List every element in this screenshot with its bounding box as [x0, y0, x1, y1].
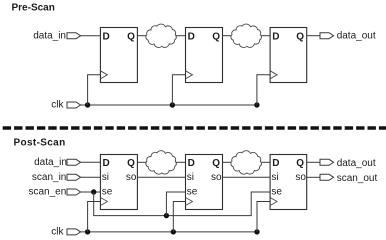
svg-text:Q: Q	[296, 31, 304, 42]
svg-text:se: se	[271, 187, 282, 198]
wire clk riser U6	[257, 202, 270, 232]
svg-text:Post-Scan: Post-Scan	[14, 138, 66, 149]
junction scan_en	[91, 189, 96, 194]
svg-text:so: so	[211, 172, 222, 183]
junction clk-U5	[171, 229, 176, 234]
combinational cloud 1	[146, 24, 177, 47]
junction clk-U2	[170, 102, 175, 107]
clock triangle U1	[100, 71, 107, 79]
input pin scan_en	[67, 189, 81, 195]
combinational cloud 2	[231, 24, 262, 47]
wire data_in to U4.D	[81, 161, 101, 163]
wire U6.so to output pin	[307, 176, 320, 178]
output pin scan_out	[320, 174, 334, 180]
svg-text:so: so	[295, 172, 306, 183]
wire U5.so to U6.si	[223, 176, 271, 178]
junction clk-U3	[254, 102, 259, 107]
input pin clk (post)	[67, 229, 81, 235]
svg-text:so: so	[126, 172, 137, 183]
input pin clk (pre)	[67, 102, 81, 108]
junction scan_en-U5	[164, 213, 169, 218]
svg-text:data_out: data_out	[337, 158, 376, 169]
wire data_in to U1.D	[81, 35, 101, 37]
output pin data_out	[320, 33, 334, 39]
flip-flop U6	[270, 155, 307, 210]
svg-text:D: D	[103, 158, 110, 169]
dashed separator line	[3, 126, 386, 129]
wire clk trunk (pre)	[81, 104, 257, 106]
svg-text:Q: Q	[127, 31, 135, 42]
svg-text:data_in: data_in	[33, 30, 66, 41]
combinational cloud 3	[146, 151, 177, 174]
clock triangle U5	[186, 198, 193, 206]
wire scan_in to U4.si	[81, 176, 101, 178]
wire scan_en riser U5	[166, 192, 185, 216]
output pin data_out (post)	[320, 159, 334, 165]
svg-text:Pre-Scan: Pre-Scan	[12, 2, 55, 13]
wire clk riser U5	[173, 202, 185, 232]
flip-flop U1	[100, 28, 137, 83]
svg-text:scan_in: scan_in	[32, 172, 66, 183]
wire clk riser U2	[172, 75, 185, 105]
svg-text:scan_en: scan_en	[29, 187, 67, 198]
svg-text:D: D	[188, 158, 195, 169]
wire clk riser U3	[257, 75, 270, 105]
svg-text:D: D	[272, 158, 279, 169]
wire scan_en distribution	[94, 192, 270, 216]
wire U2.Q to cloud2	[223, 35, 233, 37]
svg-text:D: D	[103, 31, 110, 42]
wire clk riser U1	[88, 75, 101, 105]
wire U3.Q to output pin	[307, 35, 320, 37]
junction clk-U4	[85, 229, 90, 234]
flip-flop U2	[186, 28, 223, 83]
svg-text:D: D	[188, 31, 195, 42]
clock triangle U3	[270, 71, 277, 79]
wire scan_en to U4.se	[81, 191, 101, 193]
clock triangle U4	[100, 198, 107, 206]
wire cloud4 to U6.D	[261, 161, 270, 163]
wire U4.so to U5.si	[137, 176, 185, 178]
svg-text:clk: clk	[51, 227, 64, 238]
svg-text:Q: Q	[127, 158, 135, 169]
svg-text:Q: Q	[296, 158, 304, 169]
svg-text:data_out: data_out	[337, 30, 376, 41]
combinational cloud 4	[231, 151, 262, 174]
wire U1.Q to cloud1	[137, 35, 147, 37]
svg-text:Q: Q	[212, 31, 220, 42]
svg-text:clk: clk	[51, 100, 64, 111]
junction clk-U6	[254, 229, 259, 234]
svg-text:D: D	[272, 31, 279, 42]
wire U6.Q to output pin	[307, 161, 320, 163]
svg-text:si: si	[102, 172, 109, 183]
svg-text:scan_out: scan_out	[337, 173, 378, 184]
svg-text:se: se	[102, 187, 113, 198]
input pin data_in (post)	[67, 159, 81, 165]
wire clk riser U4	[88, 202, 101, 232]
svg-text:si: si	[187, 172, 194, 183]
junction clk-U1	[85, 102, 90, 107]
input pin data_in	[67, 33, 81, 39]
input pin scan_in	[67, 174, 81, 180]
flip-flop U3	[270, 28, 307, 83]
svg-text:si: si	[271, 172, 278, 183]
clock triangle U2	[186, 71, 193, 79]
svg-text:data_in: data_in	[34, 157, 67, 168]
svg-text:Q: Q	[212, 158, 220, 169]
wire cloud1 to U2.D	[176, 35, 186, 37]
wire U5.Q to cloud4	[223, 161, 233, 163]
wire cloud2 to U3.D	[261, 35, 270, 37]
wire cloud3 to U5.D	[176, 161, 186, 163]
svg-text:se: se	[187, 187, 198, 198]
clock triangle U6	[270, 198, 277, 206]
wire U4.Q to cloud3	[137, 161, 147, 163]
flip-flop U5	[186, 155, 223, 210]
wire clk trunk (post)	[81, 231, 257, 233]
flip-flop U4	[100, 155, 137, 210]
